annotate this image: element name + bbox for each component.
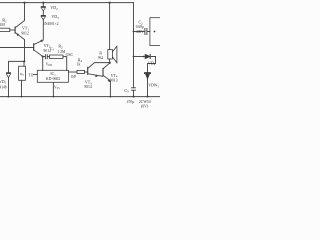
svg-text:9013: 9013 <box>110 79 118 83</box>
transistor VT1 <box>14 26 16 33</box>
transistor VT4 <box>102 68 104 76</box>
wire drop from trigger line to node A <box>24 48 26 62</box>
wire speaker bottom to node C <box>109 59 111 63</box>
resistor R1 <box>0 28 10 31</box>
junction dot ground rail VT4 emitter <box>110 96 112 98</box>
wire between VD2 and VD3 <box>42 11 44 15</box>
wire VD3 to VT2 emitter <box>34 20 43 45</box>
transistor VT3 <box>87 67 89 75</box>
wire R1 to VT1 base <box>10 29 15 31</box>
svg-text:C3: C3 <box>124 88 129 94</box>
diode VD3 <box>41 16 46 20</box>
junction dot ground rail zener <box>146 96 148 98</box>
wire diode chain from top rail to VD2 <box>42 3 44 7</box>
terminal box at top right <box>150 18 162 46</box>
svg-text:VD4: VD4 <box>148 61 156 67</box>
junction dot top rail diode chain <box>42 2 44 4</box>
svg-text:8Ω: 8Ω <box>98 56 103 60</box>
svg-text:400V: 400V <box>136 30 144 34</box>
svg-text:VD1: VD1 <box>0 79 7 85</box>
terminal box mark <box>154 31 156 33</box>
svg-text:1N4001×2: 1N4001×2 <box>43 22 59 26</box>
wire VT3 emitter to VT4 base <box>88 74 102 77</box>
wire R2 to OSC pin of IC <box>63 57 67 71</box>
wire VSS pin to ground rail <box>52 83 54 97</box>
wire bottom ground rail <box>0 96 160 98</box>
node B junction dot <box>42 56 44 58</box>
svg-text:VD2: VD2 <box>50 5 58 11</box>
svg-text:2CW54: 2CW54 <box>139 100 151 104</box>
svg-text:C1: C1 <box>50 46 55 52</box>
wire R4 to VT3 base <box>85 71 88 73</box>
wire VT4 collector to node C <box>104 63 110 68</box>
svg-text:(6V): (6V) <box>141 104 149 108</box>
diode VD4 <box>145 54 150 59</box>
wire top supply rail <box>0 2 134 4</box>
transistor VT1 emitter arrow <box>16 33 19 36</box>
wire trigger line from left edge to VT2 base <box>0 47 33 49</box>
junction dot top rail VT1 riser <box>23 2 25 4</box>
wire R5 bottom to ground rail <box>21 80 23 96</box>
junction dot ground rail VSS <box>53 96 55 98</box>
resistor R2 <box>50 55 64 58</box>
wire VT1 collector riser <box>15 3 24 28</box>
wire node B to IC VDD pin <box>42 57 44 71</box>
wire VT4 emitter to ground rail <box>104 76 111 97</box>
svg-text:1M: 1M <box>0 22 5 27</box>
svg-text:R2: R2 <box>58 44 63 50</box>
wire speaker riser from top rail <box>109 3 111 50</box>
transistor VT4 emitter arrow <box>108 79 111 82</box>
wire VD1 cathode to ground rail <box>8 78 10 96</box>
junction dot ground rail R5 <box>21 96 23 98</box>
capacitor C2 <box>145 28 147 35</box>
transistor VT3 emitter arrow <box>95 75 98 77</box>
junction dot ground rail right rail <box>132 96 134 98</box>
svg-text:1k: 1k <box>77 62 81 66</box>
junction dot right rail VD4 branch <box>133 56 135 58</box>
svg-text:TG: TG <box>28 74 33 78</box>
wire O/P pin to R4 <box>68 71 77 73</box>
wire right rail lower below C3 <box>133 91 135 97</box>
speaker B <box>108 46 117 63</box>
svg-text:0.68μ: 0.68μ <box>136 25 144 29</box>
node C junction dot <box>109 62 111 64</box>
wire C2 to terminal box <box>147 31 150 33</box>
capacitor C3 <box>131 88 136 90</box>
wire VT3 collector to node C <box>88 63 109 68</box>
transistor VT2 emitter arrow <box>40 39 43 42</box>
svg-text:9014: 9014 <box>84 85 92 89</box>
wire C1 to R2 <box>47 56 49 58</box>
wire TG pin stub <box>33 74 37 76</box>
wire VD4 cathode jog down to zener <box>148 57 156 73</box>
wire VT2 collector to node B <box>34 50 43 56</box>
svg-text:9012: 9012 <box>21 31 29 35</box>
svg-text:1N4148: 1N4148 <box>0 86 7 90</box>
wire node A left branch to VD1 <box>9 61 25 72</box>
junction dot ground rail VD1 <box>8 96 10 98</box>
IC U1 KD-9602 music chip <box>37 70 68 82</box>
wire node B to C1 <box>43 56 45 58</box>
wire zener VDW5 to ground rail <box>147 79 149 96</box>
svg-text:O/P: O/P <box>71 75 77 79</box>
svg-text:OSC: OSC <box>66 53 74 57</box>
junction dot right rail C2 branch <box>133 31 135 33</box>
wire right rail to VD4 anode <box>134 56 146 58</box>
wire right rail to C2 <box>134 31 145 33</box>
zener diode VDW5 <box>145 73 151 79</box>
wire node A to R5 <box>23 61 25 66</box>
resistor R4 <box>77 70 85 73</box>
svg-text:KD-9602: KD-9602 <box>46 77 60 81</box>
svg-text:VD3: VD3 <box>51 14 59 20</box>
junction dot before VD4 <box>143 56 145 58</box>
diode VD2 <box>41 7 46 11</box>
svg-text:470μ: 470μ <box>127 100 135 104</box>
wire right rail upper <box>133 3 135 88</box>
wire VT1 emitter down to trigger line <box>15 33 24 48</box>
diode VD1 <box>6 73 11 78</box>
node A junction dot <box>23 60 25 62</box>
resistor R5 <box>19 66 26 80</box>
junction dot top rail speaker riser <box>109 2 111 4</box>
transistor VT2 <box>33 43 35 51</box>
capacitor C1 <box>45 54 47 59</box>
